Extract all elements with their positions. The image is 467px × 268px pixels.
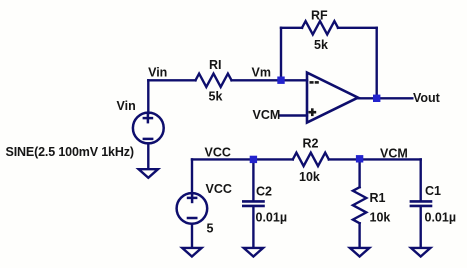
node VCM junction	[356, 155, 363, 162]
wire op-amp output to Vout	[358, 97, 412, 99]
wire C2 to ground	[252, 207, 254, 247]
wire VCM node down to R1	[358, 159, 360, 187]
svg-text:RI: RI	[209, 58, 222, 72]
wire RI to op-amp minus input via node Vm	[232, 79, 308, 81]
wire Vin node to RI	[148, 79, 195, 81]
wire VCM corner down to C1	[420, 159, 422, 201]
svg-text:VCM: VCM	[380, 146, 408, 160]
resistor RI 5k	[196, 74, 232, 87]
svg-text:5k: 5k	[314, 38, 328, 52]
capacitor C1 plates	[411, 201, 431, 206]
svg-text:R1: R1	[370, 191, 386, 205]
svg-text:VCM: VCM	[253, 108, 281, 122]
capacitor C2 plates	[243, 201, 263, 206]
wire feedback vertical left from Vm node	[280, 28, 282, 80]
svg-text:5k: 5k	[209, 89, 223, 103]
wire C1 to ground	[420, 207, 422, 247]
svg-text:C2: C2	[256, 185, 272, 199]
ground under Vin	[139, 169, 158, 178]
resistor R2 10k	[293, 153, 329, 166]
svg-text:Vm: Vm	[252, 66, 271, 80]
node VCC junction	[250, 156, 257, 163]
op-amp U1 minus input marks	[310, 81, 319, 84]
svg-text:Vin: Vin	[148, 66, 167, 80]
svg-text:RF: RF	[311, 8, 328, 22]
voltage source Vin minus mark	[143, 138, 154, 141]
wire feedback vertical right down to output node	[376, 28, 378, 99]
ground under R1	[350, 248, 369, 257]
wire VCC rail left corner down to VCC source	[191, 159, 193, 193]
wire Vin vertical to source	[147, 80, 149, 113]
resistor R1 10k	[353, 187, 366, 223]
node Vm junction	[277, 77, 284, 84]
wire VCM to op-amp plus input	[280, 114, 307, 116]
wire R1 to ground	[358, 223, 360, 247]
wire feedback top left	[281, 27, 302, 29]
node Vout junction	[373, 95, 380, 102]
svg-text:10k: 10k	[299, 170, 320, 184]
wire R2 to VCM node	[329, 158, 421, 160]
voltage source VCC plus mark	[187, 193, 198, 218]
svg-text:C1: C1	[425, 184, 441, 198]
svg-text:Vin: Vin	[117, 99, 136, 113]
svg-text:0.01µ: 0.01µ	[425, 210, 457, 224]
svg-text:VCC: VCC	[205, 145, 231, 159]
wire VCC source to ground	[191, 224, 193, 248]
ground under VCC	[182, 248, 201, 257]
voltage source VCC circle	[177, 193, 208, 224]
wire VCC node down to C2	[252, 159, 254, 200]
wire VCC rail to node	[192, 158, 293, 160]
resistor RF 5k	[302, 21, 338, 34]
svg-text:5: 5	[207, 222, 214, 236]
voltage source Vin plus mark	[143, 113, 154, 139]
op-amp U1 plus input mark	[308, 108, 316, 116]
ground under C1	[411, 248, 430, 257]
svg-text:0.01µ: 0.01µ	[256, 211, 288, 225]
wire source Vin to ground	[147, 143, 149, 168]
svg-text:R2: R2	[303, 136, 319, 150]
ground under C2	[244, 248, 263, 257]
op-amp U1 triangle	[307, 73, 358, 123]
voltage source Vin circle	[133, 113, 164, 144]
voltage source VCC minus mark	[187, 217, 198, 220]
svg-text:VCC: VCC	[206, 182, 232, 196]
svg-text:SINE(2.5 100mV 1kHz): SINE(2.5 100mV 1kHz)	[6, 145, 135, 159]
wire feedback top right	[338, 27, 377, 29]
svg-text:10k: 10k	[370, 211, 391, 225]
svg-text:Vout: Vout	[413, 91, 441, 105]
